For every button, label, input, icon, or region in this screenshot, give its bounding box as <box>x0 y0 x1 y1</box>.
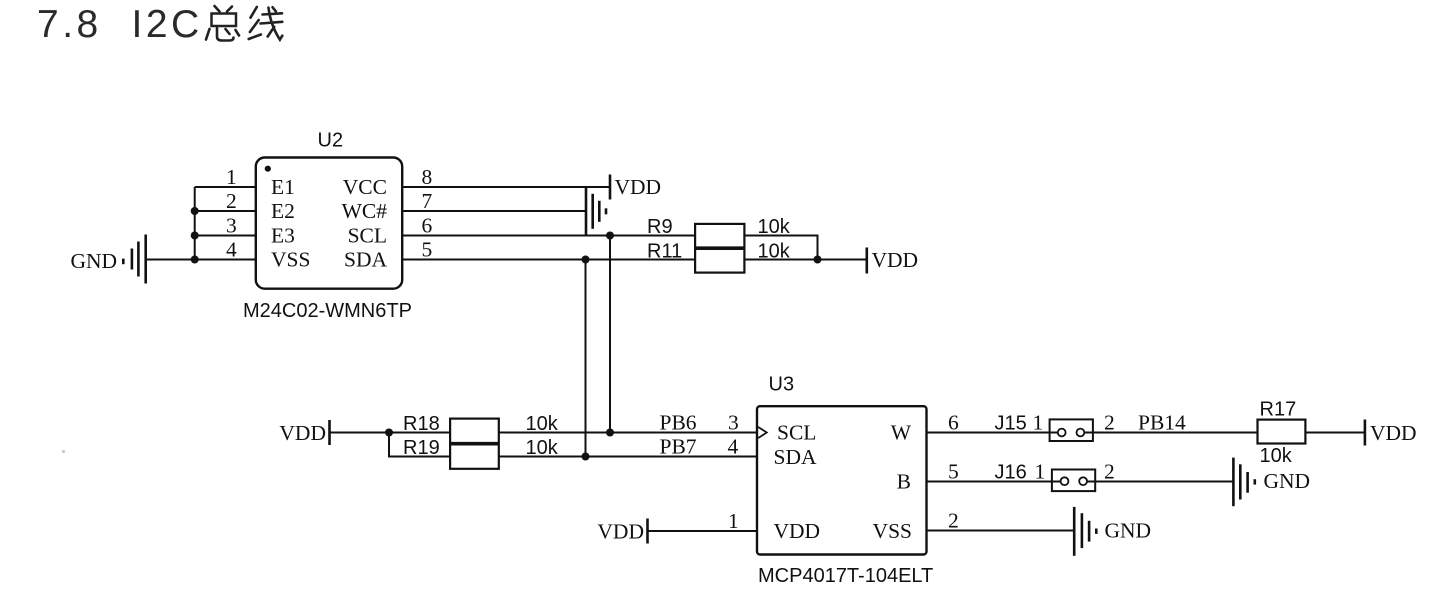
wire vertical SDA to PB7 <box>585 260 587 457</box>
svg-text:GND: GND <box>1264 469 1311 493</box>
jumper J15 body <box>1050 419 1093 441</box>
svg-text:2: 2 <box>226 189 237 213</box>
wire VDD to R18 <box>330 432 451 434</box>
IC U3 body <box>757 406 927 554</box>
wire SCL pin6 <box>402 235 695 237</box>
svg-text:R17: R17 <box>1260 399 1297 421</box>
svg-text:GND: GND <box>71 249 118 273</box>
svg-text:1: 1 <box>1035 460 1046 484</box>
svg-text:SCL: SCL <box>348 224 387 248</box>
faint speck artifact <box>62 450 65 453</box>
svg-text:2: 2 <box>948 509 959 533</box>
junction dot SDA-PB7 <box>582 453 590 461</box>
svg-text:2: 2 <box>1104 411 1115 435</box>
svg-text:E2: E2 <box>271 199 295 223</box>
wire vertical tie E1-E2-E3-VSS <box>194 187 196 260</box>
power bar VDD (U2 VCC) <box>609 175 612 200</box>
svg-text:I2C: I2C <box>132 3 203 46</box>
wire SDA pin5 <box>402 259 695 261</box>
svg-text:W: W <box>891 421 912 445</box>
wire WC# pin7 <box>402 210 586 212</box>
svg-text:VSS: VSS <box>873 519 912 543</box>
svg-text:J16: J16 <box>995 462 1027 484</box>
power bar VDD (R18 feed) <box>328 420 331 445</box>
svg-text:1: 1 <box>728 509 739 533</box>
wire pin3 tie <box>195 235 256 237</box>
wire PB6 / SCL to U3 <box>499 432 757 434</box>
J15 pad 2 <box>1077 429 1085 437</box>
resistor R17 body <box>1258 420 1306 444</box>
svg-text:4: 4 <box>226 238 237 262</box>
svg-text:R11: R11 <box>647 241 682 263</box>
svg-text:SDA: SDA <box>774 445 817 469</box>
junction dot pin4 <box>191 256 199 264</box>
svg-text:U2: U2 <box>318 130 344 152</box>
ground symbol at U2 VSS <box>123 235 145 284</box>
svg-text:VCC: VCC <box>343 175 387 199</box>
svg-text:PB7: PB7 <box>660 435 697 459</box>
svg-text:GND: GND <box>1105 519 1152 543</box>
svg-text:6: 6 <box>948 411 959 435</box>
svg-text:VDD: VDD <box>1370 421 1417 445</box>
svg-text:R19: R19 <box>403 437 440 459</box>
wire VDD to U3 pin1 <box>648 530 758 532</box>
svg-text:M24C02-WMN6TP: M24C02-WMN6TP <box>243 300 412 322</box>
svg-text:8: 8 <box>422 165 433 189</box>
svg-text:PB6: PB6 <box>660 411 697 435</box>
power bar VDD (R17) <box>1364 420 1367 446</box>
svg-text:E3: E3 <box>271 224 295 248</box>
title text 7.8 I2C <box>37 3 203 46</box>
svg-text:2: 2 <box>1104 460 1115 484</box>
wire R9 output <box>744 236 817 260</box>
wire B pin5 to J16 <box>927 481 1061 483</box>
junction dot VDD split <box>385 429 393 437</box>
svg-text:7: 7 <box>422 189 433 213</box>
J15 pad 1 <box>1058 429 1066 437</box>
svg-text:4: 4 <box>728 435 739 459</box>
svg-text:VDD: VDD <box>597 520 644 544</box>
resistor R9 R11 body <box>695 224 744 273</box>
junction dot pin3 <box>191 232 199 240</box>
junction dot SDA <box>582 256 590 264</box>
wire pin2 tie <box>195 210 256 212</box>
svg-text:E1: E1 <box>271 175 295 199</box>
power bar VDD (pullups) <box>865 248 868 274</box>
wire VCC pin8 <box>402 186 610 188</box>
IC U2 body <box>256 158 402 289</box>
jumper J16 body <box>1052 470 1095 492</box>
wire PB7 / SDA to U3 <box>499 456 757 458</box>
svg-text:R9: R9 <box>647 216 673 238</box>
power bar VDD (U3 pin1) <box>646 519 649 544</box>
svg-text:VSS: VSS <box>271 248 310 272</box>
svg-text:1: 1 <box>1033 411 1044 435</box>
svg-text:SCL: SCL <box>777 421 816 445</box>
wire R17 to VDD <box>1305 432 1365 434</box>
wire VDD down to R19 <box>389 433 450 457</box>
svg-text:1: 1 <box>226 165 237 189</box>
svg-text:5: 5 <box>422 238 433 262</box>
ground symbol at U3 VSS <box>1074 507 1096 556</box>
junction dot pin2 <box>191 207 199 215</box>
junction dot SCL-PB6 <box>606 429 614 437</box>
svg-text:10k: 10k <box>1260 445 1293 467</box>
junction dot SCL <box>606 232 614 240</box>
U3 clock marker on SCL <box>758 427 767 438</box>
svg-text:6: 6 <box>422 214 433 238</box>
svg-text:PB14: PB14 <box>1138 411 1186 435</box>
svg-text:VDD: VDD <box>774 519 821 543</box>
svg-text:VDD: VDD <box>279 421 326 445</box>
svg-text:3: 3 <box>226 214 237 238</box>
svg-text:7.8: 7.8 <box>37 3 102 46</box>
wire vertical SCL to PB6 <box>609 236 611 433</box>
title hanzi 总线 <box>206 6 282 41</box>
J16 pad 1 <box>1061 477 1069 485</box>
wire J15 to R17 <box>1084 432 1257 434</box>
U2 pin-1 marker dot <box>265 166 271 172</box>
svg-text:WC#: WC# <box>342 199 388 223</box>
resistor R18 R19 body <box>450 419 499 469</box>
ground symbol at J16 <box>1233 458 1254 507</box>
svg-text:MCP4017T-104ELT: MCP4017T-104ELT <box>758 565 933 587</box>
svg-text:U3: U3 <box>769 374 795 396</box>
svg-text:J15: J15 <box>995 413 1027 435</box>
wire W pin6 to J15 <box>927 432 1058 434</box>
wire VSS pin4 <box>146 259 256 261</box>
svg-text:VDD: VDD <box>615 175 662 199</box>
wire VSS pin2 to GND <box>927 530 1075 532</box>
svg-text:VDD: VDD <box>872 248 919 272</box>
ground symbol at WC# <box>586 187 606 236</box>
wire pin1 tie <box>195 186 256 188</box>
svg-text:R18: R18 <box>403 413 440 435</box>
svg-text:3: 3 <box>728 411 739 435</box>
wire J16 to GND <box>1087 481 1233 483</box>
svg-text:5: 5 <box>948 460 959 484</box>
junction dot pullup join <box>814 256 822 264</box>
svg-text:B: B <box>897 470 911 494</box>
svg-text:SDA: SDA <box>344 248 387 272</box>
J16 pad 2 <box>1079 477 1087 485</box>
wire R11 output <box>744 259 866 261</box>
